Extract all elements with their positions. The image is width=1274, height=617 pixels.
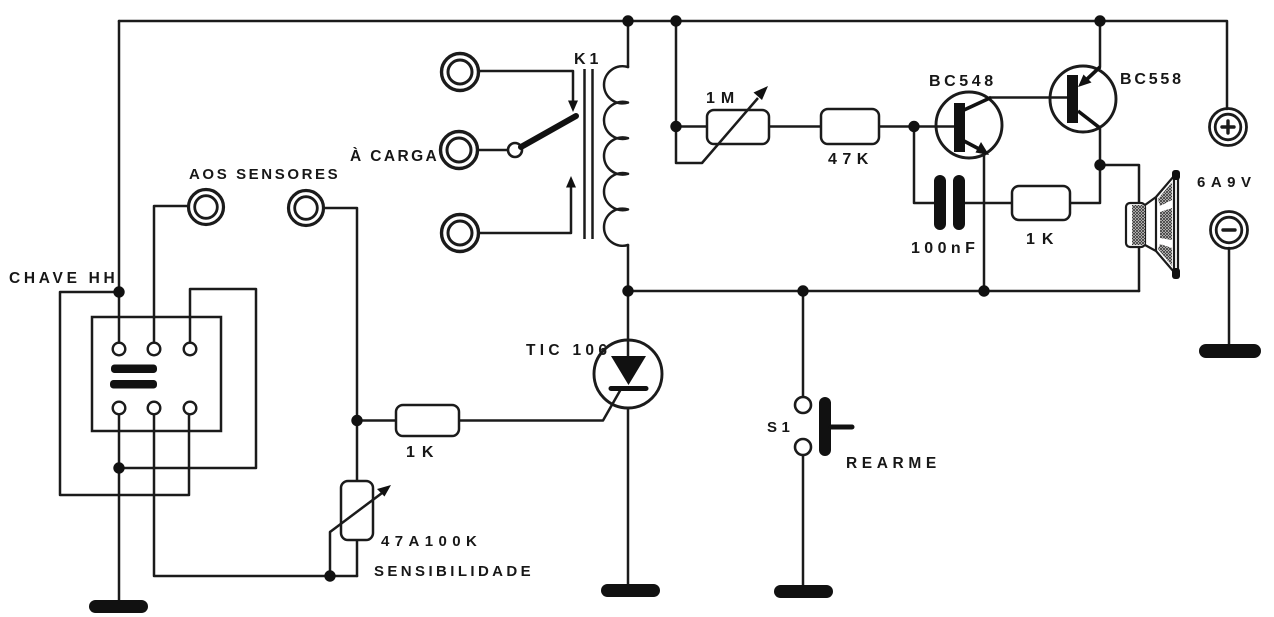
svg-text:S1: S1: [767, 419, 794, 436]
svg-text:47K: 47K: [828, 151, 874, 168]
svg-text:SENSIBILIDADE: SENSIBILIDADE: [374, 563, 534, 580]
svg-text:47A100K: 47A100K: [381, 533, 482, 550]
svg-text:À CARGA: À CARGA: [350, 148, 439, 165]
svg-text:AOS SENSORES: AOS SENSORES: [189, 166, 340, 183]
svg-text:BC548: BC548: [929, 73, 997, 90]
svg-text:1M: 1M: [706, 90, 740, 107]
svg-text:100nF: 100nF: [911, 240, 979, 257]
svg-text:1K: 1K: [406, 444, 440, 461]
svg-text:REARME: REARME: [846, 455, 941, 472]
svg-text:6A9V: 6A9V: [1197, 174, 1257, 191]
svg-text:CHAVE HH: CHAVE HH: [9, 270, 118, 287]
svg-text:TIC 106: TIC 106: [526, 342, 611, 359]
svg-text:BC558: BC558: [1120, 71, 1184, 88]
svg-text:K1: K1: [574, 51, 602, 68]
svg-text:1K: 1K: [1026, 231, 1060, 248]
